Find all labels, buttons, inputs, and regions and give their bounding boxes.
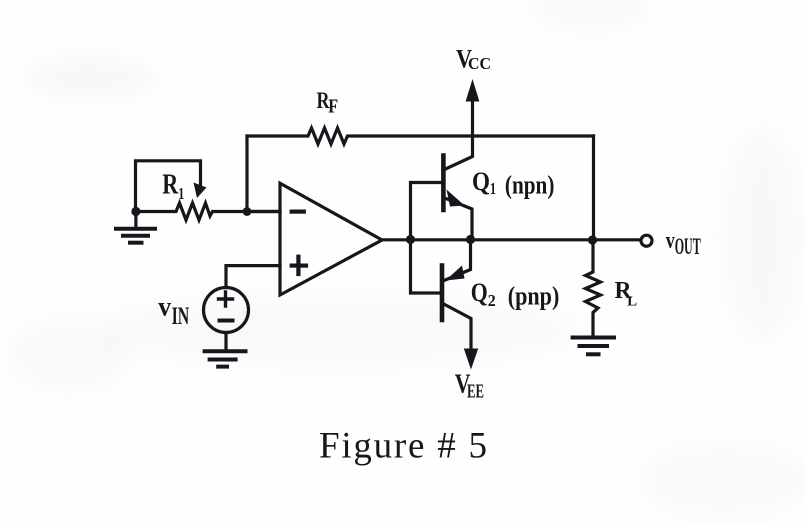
svg-text:Figure # 5: Figure # 5 (319, 426, 487, 467)
svg-text:2: 2 (488, 291, 496, 310)
svg-text:1: 1 (178, 184, 184, 203)
svg-text:1: 1 (490, 179, 496, 198)
svg-text:Q: Q (472, 167, 490, 196)
svg-text:F: F (328, 96, 338, 118)
svg-text:L: L (627, 295, 637, 310)
svg-text:v: v (666, 228, 675, 254)
svg-text:IN: IN (172, 303, 190, 330)
svg-text:R: R (162, 169, 179, 200)
svg-text:EE: EE (467, 381, 484, 403)
svg-text:Q: Q (471, 278, 488, 307)
svg-text:OUT: OUT (675, 234, 701, 259)
svg-text:(pnp): (pnp) (508, 282, 560, 311)
svg-text:v: v (158, 291, 171, 321)
svg-text:(npn): (npn) (505, 170, 555, 199)
svg-text:CC: CC (468, 54, 491, 73)
